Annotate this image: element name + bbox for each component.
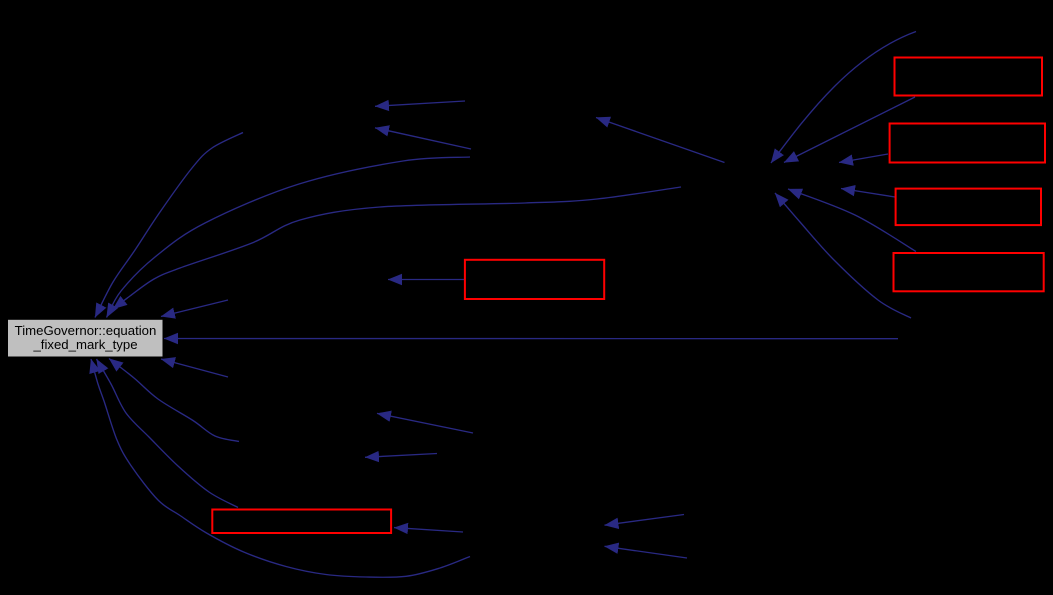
wire: edge hub U1 to hidden node N3 [596,118,725,163]
node box B1 (red, truncated) [895,58,1043,96]
wire: edge top-right hidden node to hub U1 [771,32,916,164]
wire: edge hidden node N20 to hidden node N19b [605,546,688,558]
svg-text:_fixed_mark_type: _fixed_mark_type [32,337,137,352]
node: current node TimeGovernor::equation_fixed_mark_type (gray) [8,319,164,357]
wire: edge hidden node N18 to hidden node N19a [605,515,685,526]
wire: edge hub U1 to gray node (long arc) [113,187,681,309]
wire: edge bottom red box to gray node (curve) [97,359,239,508]
wire: edge right hidden node N7 to hub U1 [775,193,911,318]
svg-text:TimeGovernor::equation: TimeGovernor::equation [15,323,157,338]
wire: edge hidden node N15 to hidden node N16 [365,454,437,458]
wire: edge hidden node N13 to hidden node N14 [377,413,473,433]
wire: edge red box B1 to hub U1 [784,97,915,163]
wire: edge right hidden node N7 to gray node (long straight) [164,338,898,340]
node box B2 (red, truncated) [890,124,1045,163]
node box B3 (red, truncated) [896,189,1041,226]
wire: edge hidden node N4 to gray node (arc) [107,157,471,318]
wire: edge hidden node N3 to hidden node N5a [375,101,465,106]
node box mid (red, truncated) [465,260,604,299]
node box B4 (red, truncated) [894,253,1044,291]
wire: edge hidden node N10 to gray node (curve) [109,359,239,442]
wire: edge hidden node N17 to bottom red box [394,528,463,532]
node box bottom (red, truncated) [212,510,391,534]
wire: edge hidden node N4 to hidden node N5b [375,128,471,149]
wire: edge red box B2 to hub U1 [839,154,888,163]
wire: edge hidden node N8 to gray node top-right [161,300,228,317]
wire: edge red box B4 to hub U1 [788,189,916,252]
wire: edge hidden node N5 to gray node (arc) [95,133,243,318]
wire: edge red box B3 to hub U1 [841,189,895,198]
wire: edge hidden node N9 to gray node bottom-right [161,359,228,377]
wire: edge mid red box to hidden node N12 [388,279,464,281]
wire: edge hidden node N11 to gray node (long bottom arc) [91,359,470,577]
